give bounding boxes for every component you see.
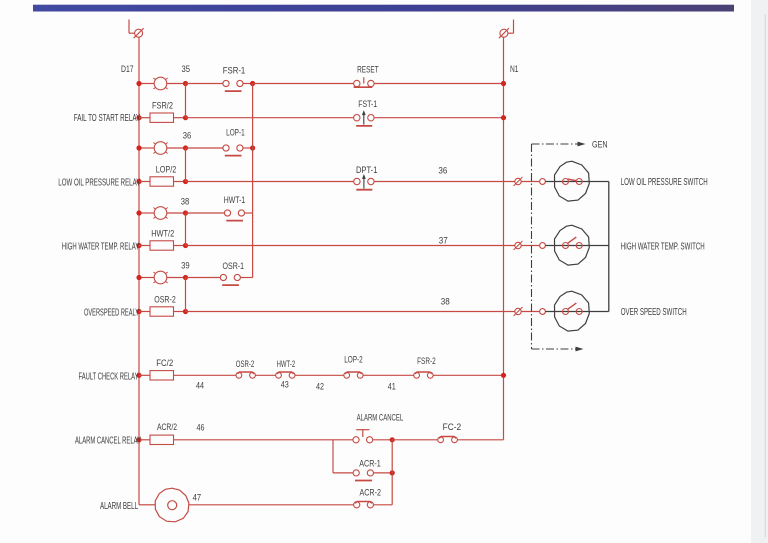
wire HWT-1 to bus <box>245 212 253 214</box>
svg-text:RESET: RESET <box>357 64 379 75</box>
junction ACR node <box>390 437 395 442</box>
svg-text:OVER SPEED SWITCH: OVER SPEED SWITCH <box>621 307 687 318</box>
wire node39 to OSR-1 <box>186 277 221 279</box>
svg-text:LOP/2: LOP/2 <box>156 165 177 176</box>
header bar <box>33 5 734 12</box>
terminal D17 <box>129 20 144 39</box>
svg-text:FST-1: FST-1 <box>358 99 377 110</box>
terminal circle HWT switch <box>540 243 546 249</box>
svg-text:FAULT CHECK RELAY: FAULT CHECK RELAY <box>79 371 139 382</box>
svg-text:HWT/2: HWT/2 <box>151 229 174 240</box>
relay coil ACR/2 <box>75 422 177 446</box>
svg-text:36: 36 <box>183 130 192 141</box>
relay coil HWT/2 <box>62 229 174 253</box>
contact OSR-2 <box>236 359 256 378</box>
node 35 <box>181 64 190 86</box>
junction rail rowF <box>136 373 141 378</box>
junction rail row8 <box>136 309 141 314</box>
contact HWT-2 <box>276 359 296 378</box>
wire OSR-2 to HWT-2 <box>255 374 275 376</box>
junction ACR-1 node <box>390 470 395 475</box>
wire terminal to HWT switch <box>521 245 539 247</box>
wire FSR-1 to bus <box>243 83 253 85</box>
wire coil LOP/2 to DPT-1 <box>174 179 354 184</box>
wire LOP-1 to bus <box>243 147 253 149</box>
relay coil OSR-2 <box>84 295 176 319</box>
junction N1 rowF <box>501 373 506 378</box>
svg-text:ACR-1: ACR-1 <box>359 458 381 469</box>
contact HWT-1 <box>224 195 246 220</box>
svg-text:OSR-2: OSR-2 <box>236 359 255 370</box>
svg-text:HWT-1: HWT-1 <box>224 195 246 206</box>
contact ACR-1 <box>353 458 381 480</box>
junction rail row1 <box>136 81 141 86</box>
pushbutton ALARM CANCEL <box>353 412 404 443</box>
terminal circle LOP switch <box>540 179 546 185</box>
svg-text:ALARM BELL: ALARM BELL <box>100 501 138 512</box>
wire RESET to N1 <box>374 83 503 85</box>
relay coil FC/2 <box>79 358 174 382</box>
wire node38 to HWT-1 <box>186 212 225 214</box>
switch LOW OIL PRESSURE SWITCH <box>545 161 707 201</box>
wire right rail N1 <box>503 37 505 440</box>
contact OSR-1 <box>220 261 244 285</box>
wire LOP-2 to FSR-2 <box>363 374 414 376</box>
wire bell to ACR-2 <box>189 504 354 506</box>
wire terminal to LOP switch <box>521 181 539 183</box>
svg-text:38: 38 <box>441 297 450 308</box>
svg-text:ALARM CANCEL: ALARM CANCEL <box>357 412 404 423</box>
wire FC/2 to OSR-2 contact <box>174 374 237 376</box>
svg-text:OVERSPEED REALY: OVERSPEED REALY <box>84 308 139 319</box>
wire node36 to LOP-1 <box>186 147 223 149</box>
svg-text:37: 37 <box>439 235 448 246</box>
pressure switch contact DPT-1 <box>354 165 378 190</box>
svg-text:38: 38 <box>181 196 190 207</box>
svg-text:HWT-2: HWT-2 <box>277 359 296 370</box>
contact FC-2 <box>438 422 461 443</box>
switch OVER SPEED SWITCH <box>545 291 686 331</box>
svg-text:HIGH WATER TEMP. RELAY: HIGH WATER TEMP. RELAY <box>62 242 140 253</box>
junction rail row2 <box>136 115 141 120</box>
svg-text:ACR/2: ACR/2 <box>157 422 177 433</box>
contact LOP-1 <box>223 128 245 156</box>
svg-text:OSR-1: OSR-1 <box>223 261 245 272</box>
svg-text:DPT-1: DPT-1 <box>356 165 378 176</box>
wire DPT-1 to switch row 36 <box>374 181 515 183</box>
svg-text:43: 43 <box>281 380 289 391</box>
contact ACR-2 <box>354 487 381 508</box>
wire ACR/2 to ALARM CANCEL button <box>174 439 353 441</box>
svg-text:FAIL TO START RELAY: FAIL TO START RELAY <box>74 113 141 124</box>
wire branch down left <box>332 440 334 473</box>
wire left rail D17 <box>138 37 140 505</box>
node 39 <box>181 260 190 280</box>
svg-text:LOP-1: LOP-1 <box>226 128 245 139</box>
node 38 <box>181 196 190 215</box>
bell BELL1 <box>100 488 189 522</box>
wire vertical ACR bus <box>391 440 393 505</box>
relay coil FSR/2 <box>74 101 174 125</box>
svg-text:OSR-2: OSR-2 <box>154 295 176 306</box>
junction bus row3 <box>250 145 255 150</box>
svg-text:41: 41 <box>388 382 396 393</box>
svg-text:FSR-2: FSR-2 <box>417 356 436 367</box>
wire junction to FC-2 <box>392 439 438 441</box>
svg-text:GEN: GEN <box>592 139 608 150</box>
wire coil HWT/2 to switch row 37 <box>174 243 515 248</box>
wire FC-2 to N1 rail <box>457 439 503 441</box>
breaker CB3 <box>139 207 186 220</box>
junction N1 row2 <box>501 115 506 120</box>
wire FSR-2 to N1 <box>433 374 503 376</box>
svg-text:ALARM CANCEL RELAY: ALARM CANCEL RELAY <box>75 436 141 447</box>
wire ACR-2 to ACR bus <box>374 504 393 506</box>
wire ACR-1 to junction <box>374 472 393 474</box>
svg-text:39: 39 <box>181 260 190 271</box>
svg-text:HIGH WATER TEMP. SWITCH: HIGH WATER TEMP. SWITCH <box>621 241 705 252</box>
terminal 38 <box>514 307 523 316</box>
junction rail row4 <box>136 179 141 184</box>
svg-text:42: 42 <box>316 381 324 392</box>
wire switch common bus <box>608 182 610 312</box>
svg-text:35: 35 <box>181 64 190 75</box>
svg-text:44: 44 <box>196 381 204 392</box>
breaker CB4 <box>139 271 186 284</box>
svg-text:LOP-2: LOP-2 <box>344 354 363 365</box>
page edge line <box>764 14 766 537</box>
svg-text:N1: N1 <box>510 64 519 75</box>
contact FSR-2 <box>414 356 436 378</box>
junction rail row3 <box>136 145 141 150</box>
breaker CB2 <box>139 142 186 155</box>
wire middle bus <box>252 84 254 278</box>
wire terminal to OSR switch <box>521 311 539 313</box>
svg-text:D17: D17 <box>121 64 134 75</box>
svg-text:36: 36 <box>438 165 447 176</box>
svg-text:47: 47 <box>193 492 202 503</box>
terminal 37 <box>514 241 523 250</box>
wire coil OSR-2 to switch row 38 <box>174 309 515 314</box>
breaker CB1 <box>139 77 186 90</box>
svg-text:FSR/2: FSR/2 <box>152 101 173 112</box>
junction rail rowA <box>136 437 141 442</box>
flow switch contact FST-1 <box>354 99 378 126</box>
svg-text:46: 46 <box>197 423 205 434</box>
junction rail row5 <box>136 210 141 215</box>
wire bus to RESET <box>253 83 354 85</box>
svg-text:ACR-2: ACR-2 <box>359 487 381 498</box>
svg-text:FC-2: FC-2 <box>443 422 462 433</box>
wire coil FSR/2 to FST-1 <box>174 115 354 120</box>
pushbutton RESET <box>354 64 379 87</box>
terminal 36 <box>514 177 523 186</box>
wire node35 to FSR-1 <box>186 83 223 85</box>
junction N1 row1 <box>501 81 506 86</box>
svg-text:LOW OIL PRESSURE RELAY: LOW OIL PRESSURE RELAY <box>58 178 140 189</box>
svg-text:LOW OIL PRESSURE SWITCH: LOW OIL PRESSURE SWITCH <box>621 177 708 188</box>
terminal N1 <box>499 20 514 39</box>
node 36 <box>183 130 192 150</box>
wire junction column segments <box>185 84 187 312</box>
wire FST-1 to N1 <box>374 117 503 119</box>
junction rail row6 <box>136 243 141 248</box>
wire button to junction <box>373 439 393 441</box>
junction rail row7 <box>136 275 141 280</box>
relay coil LOP/2 <box>58 165 176 189</box>
GEN enclosure boundary <box>532 142 586 352</box>
junction bus row1 <box>250 81 255 86</box>
contact FSR-1 <box>223 66 246 92</box>
contact LOP-2 <box>344 354 363 378</box>
terminal circle OSR switch <box>540 309 546 315</box>
svg-text:FC/2: FC/2 <box>156 358 173 369</box>
switch HIGH WATER TEMP. SWITCH <box>545 225 704 265</box>
wire left branch to ACR-1 <box>333 472 353 474</box>
wire HWT-2 to LOP-2 <box>295 374 344 376</box>
wire OSR-1 to bus <box>240 277 252 279</box>
svg-text:FSR-1: FSR-1 <box>223 66 246 77</box>
